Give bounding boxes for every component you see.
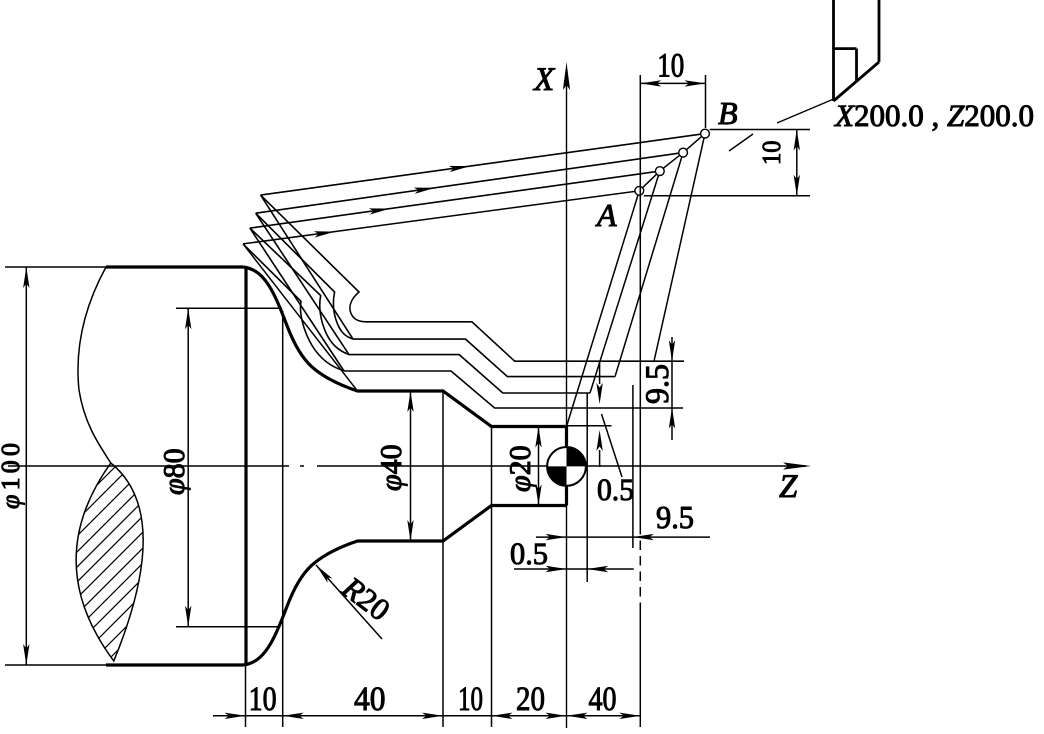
top dim 10: arrows [640,80,661,86]
top dim 10: dim line [640,82,705,84]
tool symbol cutting edge diagonal [834,62,880,101]
rapid line c3 down to pass3 right end [590,171,660,393]
svg-text:20: 20 [516,681,545,718]
bottom dim 0.5: dim line [514,568,634,570]
break lens section outline [76,463,143,661]
bottom row extension vertical x=245 [245,666,247,727]
direction arrow on return line 2 [414,185,436,194]
svg-text:φ80: φ80 [158,448,191,495]
part profile bottom mirror S-curve + phi40 + taper + phi20 [243,506,567,666]
dimension phi80: dim line [187,308,189,627]
dimension phi40: dim line [410,391,412,541]
bottom dim 9.5 arrows [546,534,567,540]
direction arrow on return line 3 [369,205,391,214]
upper dim 0.5: leader [602,414,623,477]
origin symbol NE quadrant [567,447,586,466]
svg-text:10: 10 [657,48,684,85]
svg-text:10: 10 [249,681,277,718]
chain line connecting points A c3 c2 B [639,134,705,191]
part right end face (phi20) [565,427,568,506]
svg-text:9.5: 9.5 [656,499,694,535]
rapid line c2 down to pass2 right end [615,153,683,377]
top dim 10: extension line from B [705,75,707,128]
tool leader dash short [729,134,753,151]
toolpath pass 3 contour [250,228,590,393]
ext vertical x=587.2 (0.5 allowance) [586,393,588,582]
upper dim 0.5: upper arrow shaft [599,362,601,384]
bottom row extension vertical x=282.7 [282,311,284,727]
node A circle [635,186,644,195]
bottom dim line [213,715,640,717]
direction arrow on return line 4 [314,228,336,237]
toolpath return line pass3 tip to c3 [250,171,660,228]
tool symbol step vertical [855,49,858,82]
dimension phi100: arrows [23,267,29,288]
dimension phi100: dim line [25,267,27,665]
part outline: top edge [106,265,243,268]
rapid line B down to pass1 right end [654,134,705,362]
right dim 10: extension from A [644,195,810,197]
bottom row extension vertical x=491.5 [491,427,493,728]
svg-text:10: 10 [757,141,786,166]
ext vertical x=632.9 (9.5 dim) [632,385,634,548]
toolpath descent line 4 (tip4 to profile start) [243,244,357,391]
toolpath descent line 3 (tip3 to pass4 start) [250,228,344,371]
phi20 top edge extension line [567,425,612,427]
toolpath pass 2 contour [256,213,615,376]
bottom row extension vertical x=640.3 (point A) [639,75,641,525]
svg-text:X200.0 , Z200.0: X200.0 , Z200.0 [833,98,1034,133]
svg-text:40: 40 [589,681,617,718]
svg-text:10: 10 [458,681,483,718]
dimension phi20: dim line [538,427,540,506]
toolpath return line pass1 tip to B [261,134,705,196]
svg-text:Z: Z [779,469,798,505]
dimension phi40: arrows [407,391,413,412]
svg-text:9.5: 9.5 [640,364,676,404]
toolpath descent line 1 (tip1 to pass2 start) [261,195,353,339]
right dim 10: dim line [796,130,798,196]
part outline: left face vertical [244,267,247,665]
tool symbol left vertical [832,0,835,101]
dimension phi100: left extension lines [5,267,106,665]
dimension phi20: arrows [535,427,541,448]
part outline: bottom edge [106,663,243,666]
dimension phi80: extension lines [176,308,282,627]
bottom dim 0.5 arrows [546,566,567,572]
origin symbol circle [547,447,586,486]
origin symbol SW quadrant [547,466,566,485]
svg-text:0.5: 0.5 [597,472,634,507]
node c3 circle [655,167,664,176]
Z axis arrowhead [783,462,811,469]
part profile top S-curve + phi40 + taper + phi20 [243,267,567,427]
R20 leader arrow [316,565,382,639]
workpiece break S-curve (left stock break line) [78,267,111,463]
direction arrow on return line 1 [449,163,471,172]
bottom row arrows [225,713,246,719]
toolpath pass 4 contour (innermost) [243,244,683,408]
svg-text:B: B [718,95,738,131]
toolpath pass 1 contour (outermost, 45-deg approach + hook) [261,195,684,361]
tool symbol right vertical [878,0,881,62]
bottom dim 9.5: dim line [536,536,710,538]
X axis arrowhead [563,62,570,90]
svg-text:A: A [595,197,617,233]
toolpath descent line 2 (tip2 to pass3 start) [256,213,349,354]
right dim 9.5 arrows (outside) [669,340,675,361]
svg-text:0.5: 0.5 [510,536,548,571]
right dim 10: arrows [794,130,800,151]
svg-text:φ40: φ40 [375,444,408,491]
bottom row extension vertical x=443 [442,391,444,727]
upper dim 0.5: up arrow [596,430,602,451]
svg-text:40: 40 [354,681,386,718]
node c2 circle [679,148,688,157]
svg-text:X: X [532,62,556,98]
svg-text:φ20: φ20 [504,445,537,492]
right dim 9.5 (vertical, between pass1 and pass4 ext): dim line [671,337,673,440]
centerline Z (dash-dot through part) [8,465,806,467]
right dim 10: extension from B [710,129,810,131]
X axis vertical line (end face plane) [566,70,568,728]
upper dim 0.5: lower arrow shaft [599,450,601,467]
toolpath return line pass4 tip to A [243,191,639,244]
dimension phi80: arrows [185,308,191,329]
toolpath return line pass2 tip to c2 [256,153,683,214]
tool leader dash long [777,98,836,123]
rapid line A down to profile corner [567,191,640,427]
node B circle [701,129,710,138]
tool symbol step horizontal [834,47,857,50]
upper dim 0.5: down arrow [596,383,602,404]
